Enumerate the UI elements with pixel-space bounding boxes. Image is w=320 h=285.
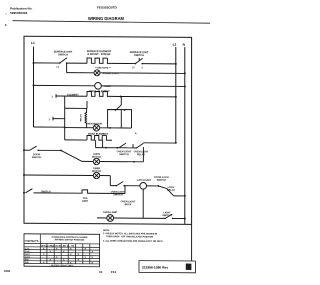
- L1 bus wire: [33, 47, 35, 127]
- switch S3 transfer switch blade: [116, 105, 122, 110]
- wire rung 3 left segment: [34, 84, 95, 86]
- svg-text:211896-1080 Rev: 211896-1080 Rev: [142, 265, 168, 269]
- diagram border frame: [24, 36, 192, 224]
- svg-text:** SEE NOTE **: ** SEE NOTE **: [95, 67, 111, 69]
- switch S8 blade down to N rung: [167, 189, 174, 196]
- svg-text:L2-4: L2-4: [25, 256, 30, 259]
- switch S5 blade to upper line: [137, 143, 144, 148]
- svg-text:L1-1: L1-1: [25, 248, 30, 250]
- lamp DS1 signal light symbol: [94, 70, 100, 76]
- node junction rung3 / N bus: [184, 85, 186, 87]
- svg-text:1. UNLESS NOTED: ALL SWITCHES: 1. UNLESS NOTED: ALL SWITCHES ARE SHOWN …: [103, 232, 158, 235]
- node junction L1 / timer rung: [23, 174, 25, 176]
- svg-text:OFF LO MED HI BA BR CL: OFF LO MED HI BA BR CL TM: [41, 244, 74, 247]
- svg-text:F14: F14: [111, 270, 117, 274]
- node junction / N bus: [184, 195, 186, 197]
- node junction rung 9: [133, 161, 135, 163]
- wire element drop to relay line: [86, 101, 88, 108]
- wire rung 1 right segment to L2 bus: [142, 63, 176, 65]
- N bus wire: [184, 47, 186, 224]
- resistor surface element symbol: [87, 58, 111, 63]
- svg-text:L2-3: L2-3: [25, 254, 30, 256]
- node junction rung4 / relay switch: [120, 95, 122, 97]
- svg-text:TODLIMIT: TODLIMIT: [82, 197, 89, 203]
- node junction rung 7 a: [105, 147, 107, 149]
- svg-text:NOTE:: NOTE:: [103, 230, 110, 232]
- header horizontal rule: [13, 21, 211, 24]
- wire latch coil drop to lamp rung: [142, 189, 144, 218]
- terminal 1 tick on rung 5: [52, 117, 54, 121]
- lamp DS3 oven lamp symbol: [107, 215, 114, 222]
- svg-text:L1-2: L1-2: [25, 251, 30, 253]
- wire rung 1 right-middle segment: [111, 62, 135, 64]
- node junction rung2 / N bus: [184, 72, 186, 74]
- title block revision fill mark: [186, 264, 192, 270]
- switch S9 light switch blade: [26, 189, 33, 193]
- wire block bottom segment: [65, 139, 87, 141]
- motor M2 oven motor symbol: [93, 158, 99, 164]
- wire bake element terminal drop 1: [95, 140, 97, 148]
- svg-text:3: 3: [52, 95, 54, 98]
- node junction rung 7 b: [116, 147, 118, 149]
- switch S10 blade: [164, 214, 173, 219]
- wire drop from S1 to rung 2: [66, 63, 68, 73]
- node contact dot S5: [135, 147, 137, 149]
- motor M3 timer motor symbol: [93, 172, 99, 178]
- contacts chart grid lines: [24, 234, 100, 264]
- svg-text:4.: 4.: [135, 132, 137, 135]
- svg-text:2: 2: [142, 67, 144, 69]
- node junction in relay box bottom: [109, 127, 111, 129]
- node contact dot S6: [37, 149, 39, 151]
- svg-text:Publication No.: Publication No.: [10, 7, 33, 11]
- breaker TOD symbol: [81, 190, 89, 193]
- switch S1 surface unit switch (contacts and blade): [59, 58, 67, 64]
- svg-text:WIRING DIAGRAM: WIRING DIAGRAM: [88, 16, 125, 21]
- wire relay drop from rung 4: [120, 96, 122, 105]
- svg-text:1: 1: [49, 118, 51, 121]
- node junction L1 / door switch rung: [23, 149, 25, 151]
- wire rung 3 right segment to N bus: [101, 85, 185, 88]
- wire rung 9 left segment: [82, 160, 93, 162]
- svg-text:2. ALL WIRE CONDUCTORS ARE 18A: 2. ALL WIRE CONDUCTORS ARE 18AWG 105°C O…: [103, 240, 163, 243]
- svg-text:RELAY: RELAY: [80, 114, 83, 122]
- terminal tick on light line: [132, 144, 134, 148]
- wire rung 13 right segment to N bus: [173, 217, 185, 219]
- coil L1 latch solenoid symbol: [140, 183, 147, 190]
- wire center block left vertical: [64, 96, 66, 140]
- node junction rung 11: [158, 185, 160, 187]
- wire S7 drop: [124, 186, 126, 194]
- wire upper light line to L2 bus: [143, 142, 175, 144]
- terminal 3 tick on rung 4: [55, 94, 57, 98]
- node junction L1 / oven light rung: [23, 192, 25, 194]
- wire rung 7 light circuit segment: [96, 147, 137, 149]
- wire rung 4 segment to junction: [111, 95, 120, 97]
- coil relay K1 vertical winding: [85, 108, 87, 127]
- switch S7 contacts: [115, 181, 125, 186]
- wire rung 8 segment: [38, 149, 61, 151]
- svg-text:1094: 1094: [4, 269, 11, 273]
- node junction rung 8: [60, 150, 62, 152]
- node junction rung1 / L2 bus: [175, 63, 177, 65]
- svg-text:LOCKRELAY: LOCKRELAY: [167, 186, 175, 192]
- wire rung 4 right segment to L2 bus: [121, 95, 176, 97]
- wire slanted feed to motor rung: [61, 150, 82, 161]
- wire rung 6 to relay box: [100, 127, 132, 129]
- wire rung 10 left segment: [24, 174, 93, 176]
- wire rung 12 segment: [34, 192, 82, 194]
- node junction rung 13 / N bus: [184, 218, 186, 220]
- node junction L1 bus / rung1: [33, 62, 35, 64]
- stray scan speck 2: [5, 24, 7, 26]
- wire rung 1 left segment: [34, 62, 60, 64]
- wire drop to latch rung: [109, 176, 111, 186]
- header publication number block: [10, 7, 33, 16]
- switch S2 surface unit switch (contacts and blade): [135, 58, 143, 64]
- contacts chart outer box: [24, 234, 100, 267]
- L2 bus wire: [175, 47, 177, 142]
- svg-text:N: N: [183, 43, 186, 47]
- relay K1 box outline: [108, 109, 132, 128]
- svg-text:X INDICATES CONTACTS CLOSEDIN: X INDICATES CONTACTS CLOSEDINFINITE SWIT…: [51, 236, 87, 242]
- wire rung 13 left stub: [97, 217, 107, 219]
- node junction rung4 / L2 bus: [175, 96, 177, 98]
- wire relay line horizontal: [65, 107, 87, 109]
- svg-text:L2: L2: [173, 43, 177, 47]
- title block box: [139, 261, 195, 273]
- switch S3 contact dots: [115, 109, 126, 111]
- svg-text:FES353CBTD: FES353CBTD: [97, 6, 118, 10]
- switch S6 door switch blade: [30, 146, 37, 150]
- wire rung 12 right segment: [89, 192, 125, 194]
- svg-text:LATCH UNIT: LATCH UNIT: [137, 179, 152, 182]
- svg-text:OVEN LAMP: OVEN LAMP: [103, 211, 118, 214]
- svg-text:DOORSWITCH: DOORSWITCH: [32, 153, 42, 159]
- wire relay armature vertical inside box: [120, 110, 122, 128]
- svg-text:10: 10: [99, 270, 103, 274]
- wire rung 1 middle segment: [67, 62, 87, 64]
- wire rung 2 right segment to N bus: [100, 72, 185, 75]
- svg-text:SURFACE ELEMENTR FRONT - R REA: SURFACE ELEMENTR FRONT - R REAR: [87, 50, 112, 56]
- switch S4 oven light switch blade: [119, 143, 126, 148]
- stray scan speck 1: [5, 13, 6, 14]
- svg-text:* HEATER CIRCUIT ONLY: * HEATER CIRCUIT ONLY: [49, 264, 74, 267]
- svg-text:LIGHTSWITCH: LIGHTSWITCH: [162, 211, 172, 217]
- wire rung 11 right segment: [147, 185, 159, 187]
- wire rung 11 left segment: [110, 185, 116, 187]
- wire rung 5 stub to block: [53, 118, 65, 120]
- contacts chart X marks: [43, 248, 93, 264]
- svg-text:L2: L2: [132, 67, 135, 69]
- wire to N bus at y195: [174, 195, 185, 197]
- node junction L1 bus / rung 3: [33, 84, 35, 86]
- wire L1 bus corner into rung 6: [34, 126, 65, 128]
- svg-text:CONTACTS: CONTACTS: [25, 240, 39, 243]
- svg-text:5995350303: 5995350303: [10, 11, 27, 15]
- svg-text:SURFACE UNITSWITCH: SURFACE UNITSWITCH: [130, 51, 149, 57]
- wire short link rung 11: [158, 186, 166, 189]
- motor M1 fan motor symbol: [93, 125, 99, 131]
- node junction light line / L2 bus: [175, 142, 177, 144]
- resistor broil element symbol: [87, 91, 111, 96]
- wire rung 11 segment: [124, 185, 140, 187]
- frame right edge extension to title block: [191, 224, 193, 260]
- notes block: [103, 230, 163, 243]
- svg-text:OVEN LIGHTSWITCH: OVEN LIGHTSWITCH: [117, 150, 132, 156]
- wire bake element terminal drop 2: [102, 140, 104, 148]
- wire rung 6 segment: [65, 127, 94, 129]
- node junction block left / rung 6: [64, 127, 66, 129]
- wire rung 2 left segment: [67, 72, 94, 74]
- wire rung 13 middle segment: [114, 217, 165, 219]
- wire vertical x143.5 tie: [142, 147, 144, 162]
- lamp DS2 oven lamp symbol: [95, 82, 102, 89]
- wire rung 9 right segment: [100, 161, 144, 163]
- wire rung 10 right segment: [100, 175, 111, 177]
- svg-text:L1: L1: [57, 67, 60, 69]
- svg-text:SURFACE UNITSWITCH: SURFACE UNITSWITCH: [54, 51, 73, 57]
- svg-text:ELEMENT: ELEMENT: [67, 94, 79, 97]
- svg-text:THEIR OPEN · OFF AND RELAXED P: THEIR OPEN · OFF AND RELAXED POSITION.: [106, 235, 154, 238]
- wire rung 8 stub: [24, 149, 30, 151]
- svg-text:L1: L1: [31, 41, 35, 45]
- wire rung 4 left segment: [56, 95, 87, 97]
- svg-text:OVEN LIGHTRELAY: OVEN LIGHTRELAY: [134, 150, 149, 156]
- svg-text:OVEN LIGHTBULB: OVEN LIGHTBULB: [121, 200, 136, 206]
- contacts chart row labels: [25, 248, 30, 264]
- resistor bake element symbol: [87, 135, 112, 140]
- svg-text:DOOR LOCKSWITCH: DOOR LOCKSWITCH: [154, 176, 169, 182]
